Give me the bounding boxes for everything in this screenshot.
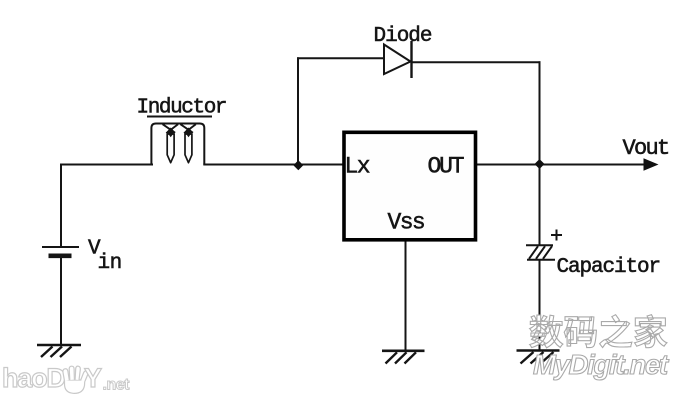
svg-text:Vout: Vout	[623, 136, 669, 161]
IC U1 box	[344, 132, 476, 240]
watermark haoDIY hand icon	[63, 366, 88, 393]
battery Vin bottom plate	[49, 254, 72, 259]
wire Vss pin to ground center	[405, 241, 407, 351]
wire rail inductor to IC box Lx pin	[204, 164, 342, 166]
inductor L1 loop 2 teardrop	[185, 134, 192, 163]
inductor L1 loop 1 teardrop	[167, 134, 174, 163]
watermark char 数	[530, 315, 563, 348]
Vout arrowhead	[644, 158, 659, 170]
inductor L1 bridge outline	[151, 124, 204, 165]
ground right hatch	[521, 352, 554, 364]
node junction dot at OUT/capacitor	[535, 159, 545, 169]
svg-text:OUT: OUT	[428, 154, 464, 180]
svg-text:haoD: haoD	[2, 363, 65, 393]
battery Vin top plate	[42, 246, 79, 248]
watermark char 之	[600, 315, 632, 348]
svg-text:Y: Y	[84, 363, 102, 393]
wire diode riser right	[539, 62, 541, 164]
inductor L1 loop 2 neck	[185, 128, 193, 138]
svg-text:Capacitor: Capacitor	[557, 256, 661, 279]
diode D1 triangle	[384, 45, 411, 75]
wire diode top rail left	[298, 57, 384, 59]
inductor L1 loop 1 neck	[167, 128, 175, 138]
wire diode top rail right	[412, 61, 540, 63]
svg-text:Vss: Vss	[388, 210, 425, 236]
svg-text:in: in	[98, 252, 122, 275]
capacitor C1 plus sign	[551, 230, 562, 241]
capacitor C1 top plate	[526, 244, 553, 246]
capacitor C1 hatch lines	[529, 246, 552, 259]
svg-text:.net: .net	[103, 377, 131, 394]
wire capacitor branch lower	[539, 260, 541, 350]
diode D1 cathode bar	[410, 41, 412, 78]
watermark char 家	[635, 315, 667, 348]
wire main rail left segment (Vin to inductor)	[61, 165, 152, 248]
ground right bar	[517, 349, 560, 352]
ground center bar	[382, 349, 425, 352]
label Inductor underline	[147, 116, 212, 118]
svg-text:Diode: Diode	[374, 25, 432, 48]
wire battery to ground left	[60, 257, 62, 345]
svg-text:MyDigit.net: MyDigit.net	[533, 349, 670, 380]
wire OUT to Vout arrow	[478, 164, 651, 166]
capacitor C1 bottom plate	[527, 259, 555, 261]
ground left bar	[37, 344, 81, 347]
ground left hatch	[41, 347, 72, 358]
watermark char 码	[564, 317, 596, 348]
ground center hatch	[386, 352, 417, 363]
node junction dot at inductor/diode	[293, 160, 303, 170]
svg-text:Lx: Lx	[345, 154, 370, 180]
wire diode riser left	[297, 58, 299, 164]
inductor L1 loop 1 crossing	[163, 124, 178, 133]
wire capacitor branch upper	[539, 165, 541, 246]
inductor L1 loop 2 crossing	[180, 124, 195, 133]
